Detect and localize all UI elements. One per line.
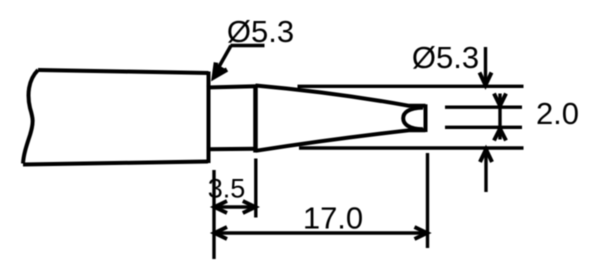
collar top edge <box>207 86 257 87</box>
dimension line 3.5 <box>214 201 256 213</box>
extension line 3.5 left <box>212 170 215 259</box>
svg-text:17.0: 17.0 <box>303 201 363 236</box>
svg-text:Ø5.3: Ø5.3 <box>412 40 479 75</box>
collar bottom edge <box>207 147 257 152</box>
svg-text:Ø5.3: Ø5.3 <box>227 14 294 49</box>
dimension line 17.0 <box>214 227 428 239</box>
extension line 3.5 right <box>254 159 257 218</box>
dimension line 2.0 with outside arrows <box>494 94 506 141</box>
barrel top edge <box>38 70 209 73</box>
leader line Ø5.3 left (underline) <box>231 44 265 48</box>
barrel right edge (step face) <box>207 72 211 164</box>
extension line 2.0 upper <box>445 105 522 108</box>
dimension arrow Ø5.3 right lower (pointing up) <box>480 149 492 192</box>
barrel bottom edge <box>23 162 208 165</box>
leader arrowhead at step corner <box>214 63 227 78</box>
taper bottom edge <box>256 130 426 151</box>
chisel tip round transition arc <box>403 108 423 130</box>
extension line top (tip diameter, upper) <box>298 85 524 88</box>
svg-text:2.0: 2.0 <box>536 96 579 131</box>
svg-text:3.5: 3.5 <box>208 173 246 203</box>
dimension arrow Ø5.3 right upper (pointing down) <box>480 47 492 86</box>
taper top edge <box>256 86 426 106</box>
chisel tip end face <box>424 104 428 132</box>
leader line Ø5.3 left (diagonal) <box>216 46 231 73</box>
extension line 17.0 right <box>426 153 429 248</box>
taper base vertical edge <box>253 85 258 153</box>
barrel wavy break line <box>23 70 38 164</box>
extension line 2.0 lower <box>445 126 522 129</box>
extension line bottom (tip diameter, lower) <box>299 146 524 149</box>
